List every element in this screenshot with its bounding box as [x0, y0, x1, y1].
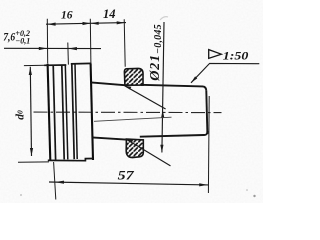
faint scan wisp	[160, 17, 168, 20]
svg-text:14: 14	[103, 7, 116, 21]
wire: cone bottom edge segment 2 with rounded right corner	[140, 131, 208, 137]
wire: flange top edge right segment	[71, 62, 92, 65]
arrowhead on C at gauge corner	[126, 139, 133, 143]
arrowhead 14 right	[117, 21, 125, 24]
svg-text:57: 57	[118, 168, 135, 182]
svg-text:1:50: 1:50	[223, 48, 249, 62]
wire: cone top edge segment 2 with rounded right corner	[141, 85, 207, 91]
dimension line 16/14 (top)	[46, 23, 126, 25]
dimension d0 (vertical, left)	[30, 67, 31, 156]
wire: flange groove line V5	[72, 64, 74, 160]
wire: flange right face / step	[91, 63, 93, 160]
arrowhead 57 left	[55, 181, 64, 184]
wire: shaft right end face	[206, 91, 207, 134]
ring gauge lower cross-section (hatched)	[126, 139, 143, 158]
wire: cone top edge segment 1	[91, 82, 126, 85]
wire: flange groove line V4	[65, 65, 68, 160]
arrowhead d0 bottom	[30, 148, 33, 156]
extension line d0 bottom	[18, 161, 49, 163]
arrowhead d0 top	[29, 67, 32, 75]
wire: flange inner line V2	[53, 65, 55, 160]
arrowhead 16 left	[47, 23, 55, 26]
oblique extension A from upper gauge corner	[125, 86, 166, 109]
svg-text:16: 16	[61, 10, 73, 22]
label dia 21 -0,045 (rotated)	[148, 24, 164, 82]
arrowhead on A at gauge corner	[125, 86, 132, 90]
extension line 57 left	[54, 162, 56, 200]
extension line 57 right	[207, 96, 210, 193]
taper symbol triangle	[209, 50, 222, 59]
ring gauge upper cross-section (hatched)	[124, 68, 143, 85]
wire: flange groove line V6	[75, 64, 77, 159]
wire: flange bottom edge	[48, 159, 93, 161]
centerline (axis, dash-dot)	[34, 111, 222, 114]
arrowhead 7,6 left (outside pointing right)	[39, 47, 47, 50]
arrowhead dia21 up	[161, 110, 164, 118]
extension line middle (16/14)	[89, 19, 92, 63]
extension line right (14)	[124, 19, 125, 67]
arrowhead 16 right	[83, 22, 91, 25]
svg-text:−0,1: −0,1	[15, 37, 30, 46]
arrowhead 7,6 right (outside pointing left)	[68, 47, 77, 50]
arrowhead dia21 down	[160, 145, 163, 153]
arrowhead taper leader	[191, 76, 197, 82]
dimension line 7,6	[4, 47, 101, 49]
faint construction line B	[94, 117, 172, 121]
wire: cone bottom edge segment 1	[92, 137, 126, 139]
arrowhead 57 right	[199, 183, 207, 186]
wire: shaft flange left face	[48, 64, 51, 160]
dimension line 57 (bottom)	[49, 182, 209, 185]
oblique extension C from lower gauge corner	[126, 139, 170, 166]
wire: flange groove line V3	[62, 65, 64, 159]
extension line left (16)	[46, 19, 48, 64]
paper specks bottom right	[253, 195, 255, 197]
taper leader arrow 1:50	[191, 63, 259, 82]
extension line 7,6 right	[67, 43, 70, 65]
svg-text:7,6: 7,6	[3, 32, 15, 44]
label d0 (rotated)	[15, 110, 27, 120]
dimension line diameter 21 (vertical)	[162, 22, 164, 153]
wire: flange top edge left segment (with d0 extension)	[24, 64, 46, 66]
arrowhead 14 left	[91, 22, 99, 25]
